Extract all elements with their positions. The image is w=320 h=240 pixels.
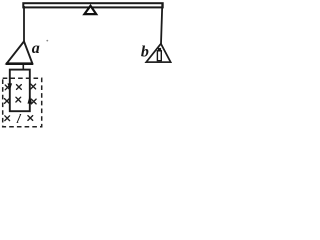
cross x7 — [5, 116, 10, 121]
beam (lever bar) — [23, 3, 162, 7]
triangle support b — [146, 44, 170, 62]
coil (rectangular loop) — [10, 70, 30, 112]
current arrow up on coil right side — [28, 95, 33, 103]
cross x1 — [5, 85, 10, 90]
svg-text:b: b — [141, 43, 149, 60]
cross x8 — [28, 116, 33, 121]
wire: right string from beam to support b — [161, 3, 162, 44]
svg-text:a: a — [32, 40, 40, 57]
cross x3 — [31, 84, 36, 89]
field cross marks — [5, 84, 37, 121]
fulcrum triangle (center support) — [84, 6, 96, 14]
triangle hook a — [7, 41, 33, 63]
magnetic field region (dashed box) — [3, 78, 42, 127]
triangle a base (thick) — [6, 62, 33, 65]
cross x6 — [31, 99, 36, 104]
current arrow down on coil left side — [8, 83, 13, 90]
wire: left string from beam to hook a — [23, 6, 25, 42]
cross x4 — [5, 99, 10, 104]
small weight inside triangle b: cap — [158, 48, 161, 51]
cross x5 — [16, 97, 21, 102]
text labels (filter forces grayscale antialiasing) — [15, 40, 149, 126]
small weight inside triangle b: body — [157, 51, 161, 61]
scan speck — [46, 40, 48, 42]
wire: stem from hook a to coil — [22, 65, 24, 71]
cross x2 — [17, 85, 22, 90]
triangle b base (thin) — [146, 61, 170, 63]
